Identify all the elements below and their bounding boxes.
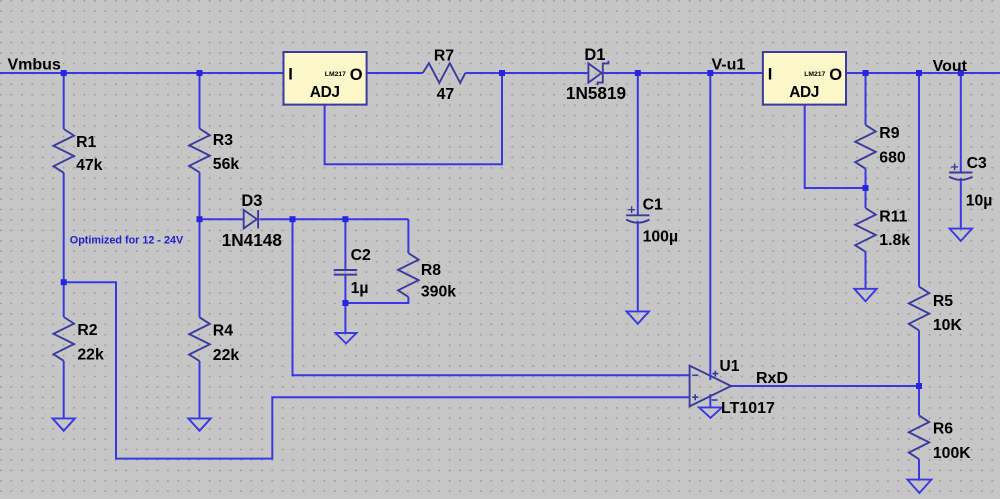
svg-text:R6: R6 [933,420,953,437]
svg-text:V-u1: V-u1 [712,56,746,73]
svg-text:1.8k: 1.8k [879,232,910,249]
svg-text:D1: D1 [584,46,605,64]
svg-text:R3: R3 [213,132,233,149]
svg-text:LM217: LM217 [804,71,825,78]
svg-text:390k: 390k [421,284,456,301]
svg-text:R11: R11 [879,209,907,226]
svg-text:U1: U1 [720,358,740,375]
svg-text:10µ: 10µ [966,192,993,209]
svg-text:1N4148: 1N4148 [222,230,283,250]
svg-text:1µ: 1µ [351,280,369,297]
svg-text:ADJ: ADJ [310,84,340,101]
svg-text:100K: 100K [933,445,971,462]
svg-text:O: O [829,66,842,84]
svg-text:100µ: 100µ [643,229,678,246]
svg-text:47: 47 [437,86,455,103]
svg-text:56k: 56k [213,156,240,173]
svg-text:LT1017: LT1017 [721,400,775,417]
svg-text:22k: 22k [77,347,104,364]
svg-text:I: I [768,66,773,84]
svg-text:ADJ: ADJ [789,84,819,101]
svg-text:D3: D3 [241,192,262,210]
svg-text:Vout: Vout [933,58,968,75]
svg-text:680: 680 [879,150,906,167]
svg-text:C1: C1 [643,197,663,214]
svg-text:R2: R2 [77,322,97,339]
svg-text:I: I [288,66,293,84]
svg-text:C3: C3 [967,155,987,172]
svg-text:R5: R5 [933,293,953,310]
svg-text:22k: 22k [213,347,240,364]
svg-text:47k: 47k [76,157,103,174]
svg-text:LM217: LM217 [325,71,346,78]
svg-text:R9: R9 [879,125,899,142]
svg-text:10K: 10K [933,317,963,334]
svg-text:R4: R4 [213,322,233,339]
svg-text:1N5819: 1N5819 [566,83,626,103]
svg-text:O: O [350,66,363,84]
svg-text:RxD: RxD [756,370,788,387]
svg-text:C2: C2 [351,247,371,264]
svg-text:R8: R8 [421,262,441,279]
svg-text:R7: R7 [434,48,454,65]
svg-text:Vmbus: Vmbus [8,56,61,73]
svg-text:Optimized for 12 - 24V: Optimized for 12 - 24V [70,235,184,247]
svg-text:R1: R1 [76,134,96,151]
